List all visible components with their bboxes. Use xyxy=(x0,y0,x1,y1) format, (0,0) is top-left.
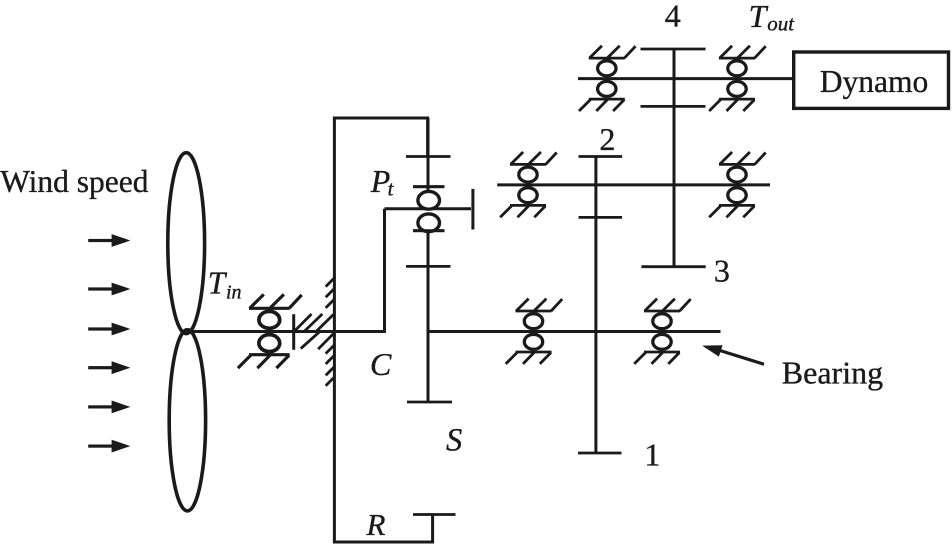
svg-text:T: T xyxy=(749,0,769,34)
svg-text:out: out xyxy=(767,12,795,36)
svg-text:2: 2 xyxy=(599,121,615,157)
svg-text:Dynamo: Dynamo xyxy=(820,64,928,99)
svg-text:Bearing: Bearing xyxy=(782,354,883,390)
svg-text:C: C xyxy=(370,346,392,382)
svg-text:3: 3 xyxy=(714,253,730,289)
svg-text:S: S xyxy=(446,422,462,458)
svg-text:R: R xyxy=(366,507,386,542)
svg-text:T: T xyxy=(208,266,228,301)
svg-text:Wind speed: Wind speed xyxy=(0,164,149,199)
svg-text:1: 1 xyxy=(644,437,660,473)
svg-text:in: in xyxy=(226,282,242,304)
svg-text:4: 4 xyxy=(665,0,681,33)
